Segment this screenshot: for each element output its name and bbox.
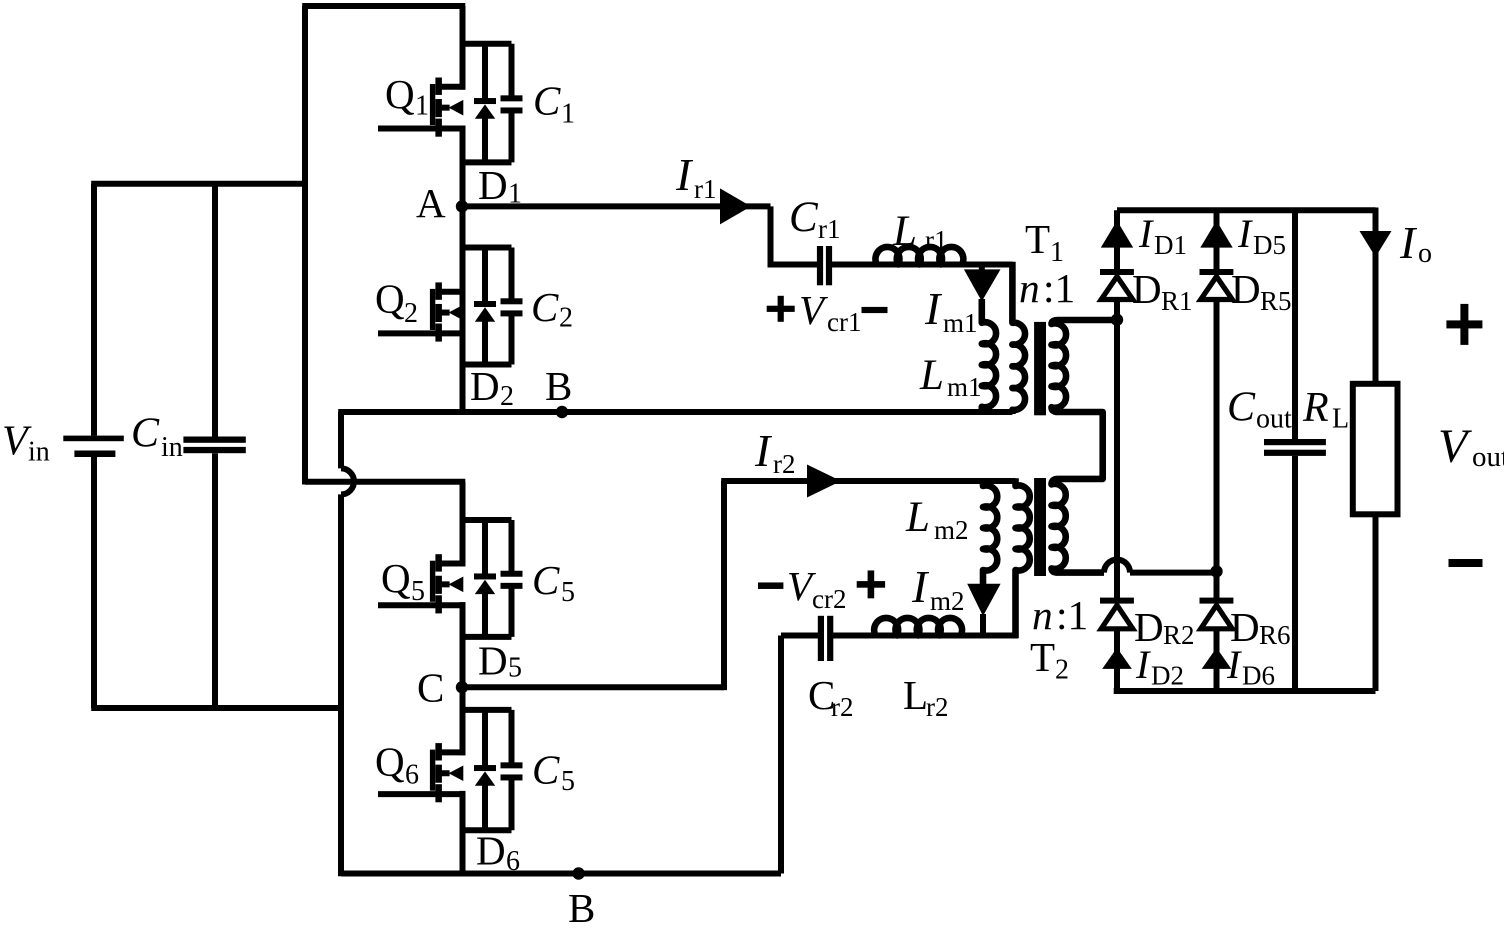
svg-text:I: I — [675, 149, 694, 200]
svg-text:D: D — [478, 638, 508, 684]
label ID2 — [1135, 642, 1184, 691]
svg-text:out: out — [1472, 441, 1504, 473]
svg-text:D: D — [478, 162, 508, 208]
label Im2 — [911, 561, 965, 616]
label C5 upper — [532, 557, 575, 608]
diode D5 capacitor C5 network — [463, 520, 523, 637]
label Lr1 — [892, 208, 948, 255]
svg-text:m1: m1 — [943, 308, 978, 338]
svg-text:r1: r1 — [925, 225, 948, 255]
svg-text:cr1: cr1 — [827, 307, 861, 337]
wire upper leg A segment — [460, 126, 466, 415]
diode D6 capacitor C6 network — [463, 710, 523, 830]
label Q2 — [375, 276, 418, 330]
label Cin — [131, 411, 183, 464]
inductor Lm1 — [982, 299, 996, 414]
svg-text:5: 5 — [508, 653, 522, 684]
svg-text:R: R — [1302, 385, 1329, 431]
label RL — [1302, 385, 1349, 435]
svg-text:R6: R6 — [1259, 620, 1291, 650]
svg-text:D1: D1 — [1154, 230, 1187, 260]
label A — [416, 180, 446, 226]
label minus Vout — [1449, 559, 1483, 567]
svg-text:Q: Q — [385, 71, 415, 117]
label Ir2 — [754, 425, 796, 479]
wire load branch upper — [1373, 208, 1379, 384]
svg-text:5: 5 — [561, 577, 575, 608]
arrow Ir1 — [720, 188, 751, 224]
diode DR1 — [1100, 269, 1134, 300]
svg-text:L: L — [1332, 404, 1349, 435]
label T2 — [1030, 634, 1069, 686]
svg-text:I: I — [911, 561, 930, 612]
wire node C to corner — [467, 684, 724, 690]
label Lm1 — [919, 352, 982, 402]
svg-text:Q: Q — [375, 739, 405, 785]
svg-text:r2: r2 — [773, 449, 796, 479]
arrow ID2 — [1102, 648, 1132, 669]
svg-text:D6: D6 — [1242, 661, 1275, 691]
wire Vin/Cin top — [91, 181, 305, 187]
arrow Im2 — [967, 584, 1000, 638]
wire node B horizontal — [338, 409, 1012, 415]
svg-text:r1: r1 — [694, 174, 717, 204]
diode D2 capacitor C2 network — [463, 248, 523, 365]
label D6 — [476, 828, 520, 878]
inductor Lm2 — [983, 480, 997, 585]
label Lr2 — [903, 672, 949, 722]
svg-text:C: C — [532, 557, 560, 603]
svg-text:A: A — [416, 180, 446, 226]
svg-text:L: L — [892, 208, 917, 255]
svg-text:1: 1 — [561, 99, 575, 130]
svg-text:C: C — [417, 665, 444, 711]
label D5 — [478, 638, 522, 684]
wire load branch lower — [1373, 514, 1379, 691]
svg-text:2: 2 — [559, 303, 573, 334]
wire Cr2 down to B rail — [778, 636, 784, 874]
svg-text:n: n — [1032, 592, 1053, 638]
svg-text:2: 2 — [1055, 655, 1069, 686]
wire Ir2 horizontal — [721, 478, 1015, 484]
label Cr1 — [789, 194, 841, 244]
label Cout — [1227, 385, 1292, 435]
svg-text::1: :1 — [1056, 592, 1088, 638]
svg-text:D: D — [1132, 266, 1162, 312]
svg-text:L: L — [905, 494, 930, 541]
svg-text:out: out — [1256, 404, 1292, 435]
transformer T1 primary — [1012, 262, 1025, 414]
svg-text:Q: Q — [381, 555, 411, 601]
transistor Q6 — [378, 743, 465, 802]
label C2 — [531, 284, 573, 334]
capacitor Cout — [1264, 210, 1326, 691]
svg-text:5: 5 — [411, 576, 425, 607]
label Im1 — [924, 283, 978, 338]
svg-text:I: I — [1237, 211, 1253, 256]
svg-text:in: in — [28, 437, 50, 468]
wire output bottom rail — [1114, 688, 1376, 694]
wire Vin/Cin bottom — [91, 705, 344, 711]
label plus Vcr1 minus — [767, 287, 888, 337]
label Cr2 — [808, 672, 854, 722]
svg-text:C: C — [533, 78, 561, 124]
wire lower leg drain segment — [460, 482, 466, 567]
wire output top rail — [1117, 207, 1376, 213]
svg-text:C: C — [1227, 385, 1256, 431]
label Vin — [2, 419, 50, 468]
arrow Ir2 — [807, 465, 841, 498]
svg-text:m2: m2 — [934, 515, 969, 545]
label B — [545, 363, 572, 409]
transistor Q1 — [378, 78, 465, 137]
svg-text:R5: R5 — [1260, 286, 1292, 316]
label minus Vcr2 plus — [758, 563, 885, 614]
svg-text:I: I — [1226, 642, 1242, 687]
svg-text:m1: m1 — [947, 372, 982, 402]
wire lower bottom rail — [341, 871, 781, 877]
node C — [456, 681, 468, 693]
node secondary T2 junction — [1210, 565, 1222, 577]
svg-text:1: 1 — [1050, 237, 1064, 268]
label C5 lower — [532, 747, 575, 798]
svg-text:n: n — [1019, 265, 1040, 311]
capacitor Cr2 — [818, 616, 834, 661]
wire rectifier branch 2 upper — [1214, 210, 1220, 269]
svg-text:T: T — [1025, 216, 1050, 262]
node B bottom — [572, 867, 584, 879]
svg-text:B: B — [545, 363, 572, 409]
arrow Io — [1360, 231, 1392, 257]
wire rectifier branch 1 lower — [1114, 629, 1120, 691]
wire upper leg drain segment — [460, 6, 466, 90]
label D1 — [478, 162, 522, 210]
svg-text:I: I — [754, 425, 773, 476]
wire step down to Cr1 — [771, 206, 818, 264]
label ID6 — [1226, 642, 1275, 691]
label ID1 — [1138, 211, 1187, 260]
label n:1 bottom — [1032, 592, 1088, 638]
wire Cr1 to Lr1 — [832, 262, 1012, 268]
capacitor Cr1 — [817, 246, 832, 285]
wire tank2 bottom right — [833, 633, 1019, 639]
transistor Q5 — [378, 554, 465, 613]
svg-text:R2: R2 — [1163, 620, 1195, 650]
svg-text:L: L — [919, 352, 944, 399]
label DR1 — [1132, 266, 1193, 316]
label Q1 — [385, 71, 429, 122]
svg-text:C: C — [131, 411, 160, 457]
svg-text:m2: m2 — [930, 586, 965, 616]
label Lm2 — [905, 494, 969, 545]
label DR2 — [1134, 604, 1195, 650]
wire lower leg source segment — [460, 791, 466, 874]
svg-text:in: in — [161, 432, 183, 463]
wire rectifier branch 2 lower — [1214, 629, 1220, 691]
diode DR6 — [1200, 598, 1234, 629]
svg-text:6: 6 — [506, 846, 520, 877]
wire rectifier branch 1 middle — [1114, 298, 1120, 600]
label Io — [1399, 217, 1432, 269]
svg-text:C: C — [532, 747, 560, 793]
wire lower leg C segment — [460, 602, 466, 755]
arrow ID1 — [1101, 221, 1133, 248]
label plus Vout — [1446, 304, 1482, 345]
svg-text:T: T — [1030, 634, 1055, 680]
arrow Im1 — [964, 265, 1001, 302]
resistor RL — [1353, 384, 1398, 515]
svg-text:L: L — [903, 672, 928, 718]
wire left + bus vertical — [302, 6, 308, 485]
svg-text:5: 5 — [561, 766, 575, 797]
transformer T1 core — [1034, 322, 1046, 415]
diode D1 capacitor C1 network — [463, 44, 523, 163]
wire secondary hop over DR2 — [1104, 560, 1217, 573]
svg-text:Q: Q — [375, 276, 405, 322]
label Q6 — [375, 739, 419, 791]
battery Vin — [63, 184, 124, 708]
label T1 — [1025, 216, 1064, 268]
node B — [556, 406, 568, 418]
diode DR5 — [1200, 269, 1234, 300]
svg-text:C: C — [789, 194, 819, 241]
wire top bus rail — [302, 3, 465, 9]
transformer T1 secondary — [1052, 320, 1118, 573]
label C node — [417, 665, 444, 711]
svg-text:I: I — [1138, 211, 1154, 256]
svg-text:B: B — [568, 885, 595, 929]
svg-text:D: D — [1231, 266, 1261, 312]
wire rectifier branch 1 upper — [1114, 210, 1120, 269]
inductor Lr1 — [875, 247, 963, 265]
label ID5 — [1237, 211, 1286, 260]
arrow ID6 — [1202, 648, 1232, 669]
transformer T2 core — [1034, 478, 1046, 576]
label D2 — [470, 363, 514, 412]
svg-text:D: D — [470, 363, 500, 409]
diode DR2 — [1100, 598, 1134, 629]
wire tank2 bottom left — [781, 633, 819, 639]
svg-text:1: 1 — [415, 91, 429, 122]
svg-text:r1: r1 — [818, 214, 841, 244]
label n:1 top — [1019, 265, 1075, 311]
svg-text:C: C — [531, 284, 559, 330]
wire B left vertical with hop — [341, 412, 354, 876]
label Vout — [1438, 420, 1504, 473]
svg-text::1: :1 — [1043, 265, 1075, 311]
svg-text:I: I — [924, 283, 943, 334]
capacitor Cin — [183, 184, 245, 708]
svg-text:D: D — [476, 828, 506, 874]
wire + bus to lower leg — [305, 479, 465, 485]
label Ir1 — [675, 149, 717, 204]
transistor Q2 — [378, 282, 465, 341]
svg-text:D5: D5 — [1253, 230, 1286, 260]
svg-text:r2: r2 — [926, 692, 949, 722]
label C1 — [533, 78, 575, 130]
svg-text:I: I — [1399, 217, 1418, 268]
svg-text:2: 2 — [404, 298, 418, 329]
svg-text:D2: D2 — [1151, 661, 1184, 691]
label B bottom — [568, 885, 595, 929]
node secondary T1 junction — [1111, 314, 1123, 326]
svg-text:o: o — [1418, 238, 1432, 269]
wire rectifier branch 2 middle — [1214, 298, 1220, 600]
wire corner up — [721, 481, 727, 690]
arrow ID5 — [1200, 221, 1232, 248]
label Q5 — [381, 555, 425, 607]
label DR5 — [1231, 266, 1292, 316]
svg-text:cr2: cr2 — [812, 584, 846, 614]
transformer T2 primary — [1016, 478, 1030, 638]
svg-text:I: I — [1135, 642, 1151, 687]
wire node A to arrow — [467, 203, 771, 209]
svg-text:2: 2 — [500, 381, 514, 412]
inductor Lr2 — [874, 618, 962, 636]
svg-text:r2: r2 — [831, 692, 854, 722]
node A — [456, 200, 468, 212]
svg-text:6: 6 — [405, 760, 419, 791]
svg-text:R1: R1 — [1161, 286, 1193, 316]
svg-text:V: V — [799, 287, 828, 333]
label DR6 — [1230, 604, 1291, 650]
svg-text:V: V — [1438, 420, 1472, 473]
